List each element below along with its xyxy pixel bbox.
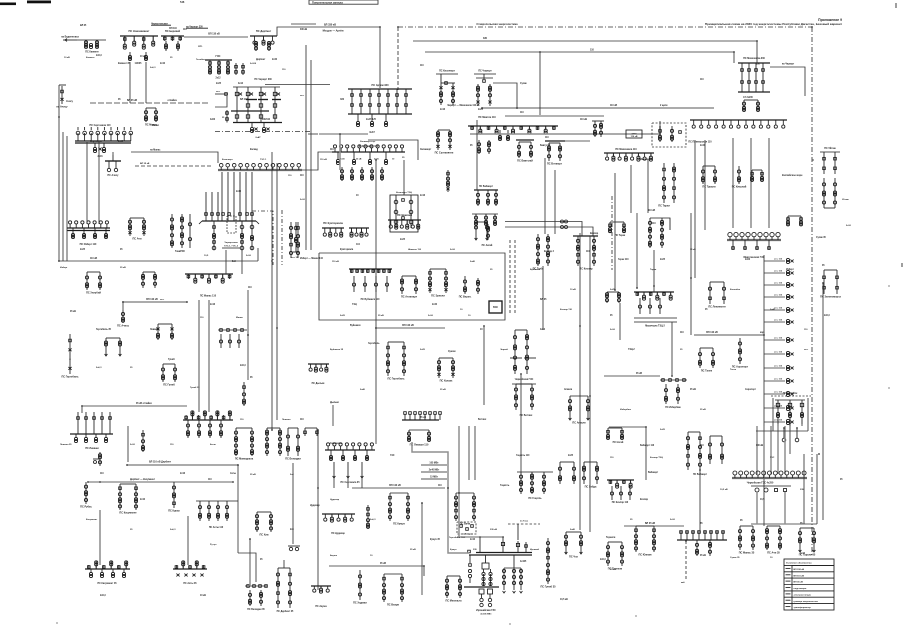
- label M9: [238, 83, 244, 85]
- wire plant box: [609, 427, 817, 524]
- label N66: [130, 529, 133, 531]
- label M11: [272, 58, 278, 61]
- svg-text:110: 110: [170, 444, 174, 446]
- label N64: [370, 555, 373, 557]
- svg-text:ПС Ачи: ПС Ачи: [132, 237, 142, 240]
- label L41: [800, 523, 803, 525]
- label M1: [80, 25, 87, 27]
- svg-text:ПС Каякент: ПС Каякент: [85, 51, 99, 54]
- substation S19: [446, 170, 449, 192]
- label N28: [420, 349, 426, 351]
- wire X33: [619, 303, 621, 340]
- label M76: [368, 342, 380, 345]
- svg-text:Гоцатль 110: Гоцатль 110: [516, 455, 530, 457]
- svg-text:отп. 110: отп. 110: [774, 352, 783, 354]
- svg-text:35: 35: [822, 265, 825, 267]
- plant S97 feeder wire: [457, 534, 504, 538]
- svg-text:330: 330: [340, 99, 345, 101]
- substation S71: [698, 348, 714, 372]
- label M53: [100, 595, 106, 597]
- label N16: [246, 255, 252, 257]
- svg-text:2хАТ: 2хАТ: [255, 136, 261, 139]
- wire X11: [257, 248, 259, 261]
- wire ring 134: [470, 121, 660, 134]
- wire y488: [352, 484, 445, 488]
- plant S97 left feeder: [468, 555, 471, 583]
- svg-text:110: 110: [240, 419, 244, 421]
- svg-text:ПС Мехельта: ПС Мехельта: [446, 599, 463, 602]
- tap G1: [56, 85, 68, 108]
- svg-text:ПС Ботлих: ПС Ботлих: [520, 414, 533, 417]
- substation S93: [366, 505, 369, 529]
- svg-text:2х6,3: 2х6,3: [824, 315, 830, 317]
- svg-text:330: 330: [756, 64, 761, 66]
- wire tie cap A: [505, 220, 582, 236]
- svg-text:35 кВ: 35 кВ: [690, 249, 696, 251]
- svg-text:110 кВ: 110 кВ: [631, 136, 638, 138]
- label N49: [330, 499, 340, 501]
- svg-text:2х6,3: 2х6,3: [370, 519, 376, 521]
- svg-text:35: 35: [170, 57, 173, 59]
- svg-text:Чиркей: Чиркей: [500, 348, 509, 351]
- svg-text:отп.: отп.: [804, 349, 809, 351]
- wire X1: [62, 132, 64, 261]
- svg-text:ТЭЦ-2: ТЭЦ-2: [628, 349, 635, 351]
- label M47: [690, 389, 696, 391]
- svg-text:35: 35: [402, 157, 405, 159]
- junction J38: [645, 426, 647, 428]
- label M15: [440, 109, 446, 111]
- fold mark bar 2: [27, 1, 51, 4]
- svg-text:ПС Уйташ: ПС Уйташ: [824, 147, 835, 150]
- label N7: [282, 69, 286, 71]
- label N70: [450, 249, 456, 251]
- svg-text:ПС Хаджал: ПС Хаджал: [353, 601, 367, 604]
- svg-text:15 МВт: 15 МВт: [430, 477, 439, 479]
- svg-text:ПС Ленинкент: ПС Ленинкент: [708, 305, 726, 308]
- substation S98: [517, 472, 553, 500]
- label M82: [544, 251, 555, 253]
- label M17: [520, 83, 528, 85]
- junction J6: [276, 327, 278, 329]
- wire S10 link: [113, 149, 218, 163]
- svg-text:ПС Новокаякент: ПС Новокаякент: [129, 29, 151, 33]
- label M10: [256, 58, 266, 61]
- wire gray v459: [459, 426, 475, 493]
- label N22: [96, 367, 102, 369]
- svg-text:2х25: 2х25: [216, 83, 222, 85]
- label N31: [360, 388, 366, 391]
- gen unit labels: [421, 463, 447, 479]
- svg-text:10: 10: [468, 315, 471, 317]
- svg-text:каб.: каб.: [681, 581, 686, 584]
- svg-text:2х25: 2х25: [610, 289, 616, 291]
- wire X25: [690, 278, 692, 335]
- label N42: [650, 457, 663, 459]
- label L25: [648, 210, 655, 212]
- label N1: [64, 57, 70, 59]
- svg-text:Каспийск: Каспийск: [730, 288, 741, 291]
- svg-text:10 кВ: 10 кВ: [610, 569, 616, 571]
- label M65: [700, 555, 706, 557]
- substation S16: [516, 140, 590, 165]
- label N38: [660, 429, 666, 431]
- wire v484: [483, 326, 485, 384]
- svg-text:ПС Чирюрт 330: ПС Чирюрт 330: [254, 79, 272, 81]
- feeder column items: [764, 258, 794, 424]
- label N26: [282, 419, 291, 421]
- label M74: [356, 195, 359, 197]
- junction J40: [783, 427, 785, 429]
- svg-text:Тарки: Тарки: [650, 269, 657, 271]
- substation S55: [459, 276, 480, 298]
- svg-text:110: 110: [100, 473, 104, 475]
- label M38: [352, 304, 357, 306]
- svg-text:2х16: 2х16: [428, 315, 434, 317]
- svg-text:ПС Ахты 110: ПС Ахты 110: [209, 526, 224, 529]
- substation S44: [242, 382, 245, 406]
- svg-text:35 кВ: 35 кВ: [700, 555, 706, 557]
- wire X42: [292, 463, 294, 544]
- label N12: [360, 141, 376, 143]
- label L35: [250, 377, 253, 379]
- wire y566: [329, 565, 424, 567]
- svg-text:отп. 110: отп. 110: [774, 259, 783, 261]
- svg-text:Буйнакск: Буйнакск: [350, 324, 361, 327]
- wire X5: [58, 85, 60, 104]
- svg-text:110 кВ: 110 кВ: [648, 210, 655, 212]
- svg-text:ПС Кумух: ПС Кумух: [393, 522, 405, 525]
- label M14: [420, 65, 424, 67]
- svg-text:ПС Ботаюрт: ПС Ботаюрт: [547, 162, 563, 165]
- svg-text:35 кВ: 35 кВ: [380, 563, 386, 565]
- substation S113: [353, 570, 367, 604]
- label M59: [430, 539, 441, 541]
- svg-text:4х63: 4х63: [540, 328, 546, 331]
- wire X27: [756, 58, 758, 63]
- junction J1: [58, 260, 60, 262]
- svg-text:110 кВ: 110 кВ: [90, 258, 97, 260]
- wire X12: [198, 300, 200, 412]
- svg-text:Цудахар: Цудахар: [330, 499, 340, 501]
- svg-text:Хунзах: Хунзах: [448, 351, 456, 353]
- svg-text:ПС Дербент: ПС Дербент: [256, 29, 272, 33]
- junction J26: [423, 565, 425, 567]
- svg-text:Бавтугай: Бавтугай: [540, 144, 551, 147]
- label M67: [800, 553, 806, 555]
- junction J5: [271, 260, 273, 262]
- label N81: [842, 198, 849, 201]
- substation S13: [474, 70, 517, 108]
- substation F1 top bus: [233, 85, 330, 88]
- fold dot b: [509, 623, 510, 624]
- svg-text:110: 110: [330, 149, 334, 151]
- svg-text:330 кВ: 330 кВ: [490, 529, 497, 531]
- label N65: [86, 519, 98, 521]
- svg-text:Кумух: Кумух: [450, 549, 457, 551]
- label N2: [86, 57, 95, 59]
- svg-text:Чирюртская: Чирюртская: [224, 242, 238, 244]
- label N10: [260, 159, 267, 161]
- label M48: [745, 388, 757, 391]
- label M68: [840, 479, 843, 481]
- svg-text:граница энергосистем: граница энергосистем: [794, 601, 819, 603]
- svg-text:10 кВ: 10 кВ: [140, 56, 146, 58]
- wire X37: [784, 492, 786, 524]
- svg-text:ВЛ 330 кВ: ВЛ 330 кВ: [794, 569, 805, 571]
- svg-text:2х63: 2х63: [745, 259, 751, 261]
- svg-text:2х25: 2х25: [400, 239, 406, 241]
- label L12: [680, 332, 684, 334]
- svg-text:ПС Буйнакск 110: ПС Буйнакск 110: [361, 298, 381, 301]
- wire X23: [750, 138, 752, 228]
- svg-text:10,5: 10,5: [760, 499, 765, 501]
- label M60: [470, 539, 476, 541]
- svg-text:ПС Кумторкала: ПС Кумторкала: [323, 221, 343, 225]
- label L28: [300, 419, 304, 421]
- junction J13: [481, 107, 483, 109]
- label N39: [700, 409, 706, 411]
- label N54: [530, 548, 540, 551]
- svg-text:ПС Касумкент: ПС Касумкент: [119, 511, 137, 514]
- svg-text:отп. 110: отп. 110: [774, 392, 783, 394]
- label M44: [705, 309, 708, 311]
- substation S2 Новокаякент 110: [120, 29, 158, 65]
- svg-text:2х6,3: 2х6,3: [100, 595, 106, 597]
- label M3: [118, 63, 131, 65]
- svg-text:Принципиальная схема на 2030 г: Принципиальная схема на 2030 год энергос…: [705, 22, 843, 26]
- svg-text:ПС Гоцатль: ПС Гоцатль: [528, 498, 542, 500]
- label N57: [60, 444, 72, 446]
- svg-text:110: 110: [438, 485, 442, 487]
- label L14: [700, 523, 703, 525]
- svg-text:35: 35: [222, 117, 225, 119]
- wire ring 116: [505, 115, 604, 117]
- plant dashed box: [227, 216, 236, 233]
- label L10: [300, 257, 324, 260]
- svg-text:ВЛ 110 кВ: ВЛ 110 кВ: [706, 331, 718, 334]
- label N24: [190, 386, 200, 389]
- svg-text:330: 330: [473, 549, 477, 551]
- substation S29: [750, 170, 763, 182]
- svg-text:на Манас: на Манас: [150, 149, 161, 151]
- svg-text:2х16: 2х16: [210, 304, 216, 306]
- svg-text:2х16: 2х16: [440, 109, 446, 111]
- svg-text:отп.: отп.: [300, 95, 305, 97]
- label N19: [160, 299, 165, 301]
- plant S97 topleft box: [449, 522, 476, 539]
- svg-text:Леваши 35: Леваши 35: [60, 444, 72, 446]
- substation S45 bus: [70, 434, 113, 450]
- svg-text:330: 330: [483, 37, 488, 40]
- svg-text:110: 110: [356, 244, 360, 246]
- svg-text:Ирганай: Ирганай: [530, 548, 540, 551]
- wire X51: [423, 566, 425, 576]
- label N77: [730, 288, 741, 291]
- svg-text:Кизляр ТЭЦ: Кизляр ТЭЦ: [650, 457, 663, 459]
- svg-text:Дербент: Дербент: [256, 58, 266, 61]
- label N61: [250, 474, 256, 476]
- svg-text:ПС Мамедкала: ПС Мамедкала: [235, 457, 254, 460]
- svg-text:ВЛ 110: ВЛ 110: [240, 99, 248, 101]
- label L15: [350, 324, 361, 327]
- label L13: [636, 373, 642, 375]
- substation S38: [117, 310, 129, 327]
- junction J18: [237, 464, 239, 466]
- label M32: [210, 304, 216, 306]
- svg-text:10 кВ: 10 кВ: [64, 57, 70, 59]
- label N36: [730, 369, 737, 371]
- svg-text:отп. 110: отп. 110: [774, 379, 783, 381]
- svg-text:ПС Бабаюрт: ПС Бабаюрт: [693, 473, 708, 476]
- svg-text:10: 10: [770, 557, 773, 559]
- svg-text:Изберг — Манас 110: Изберг — Манас 110: [300, 257, 324, 260]
- substation F1 mid bus: [246, 99, 281, 101]
- svg-text:ПС Дылым: ПС Дылым: [312, 383, 325, 385]
- wire y406: [82, 406, 187, 413]
- wire gray y465: [127, 461, 238, 553]
- label L29: [330, 402, 339, 404]
- svg-text:ПС Артём 330: ПС Артём 330: [372, 84, 390, 87]
- substation S11 lower feeders: [356, 114, 387, 134]
- substation S12: [436, 70, 458, 105]
- wire X34: [789, 418, 791, 454]
- svg-text:Изберг: Изберг: [60, 266, 68, 269]
- wire gray y302: [123, 298, 187, 310]
- svg-text:ВЛ 330 кВ: ВЛ 330 кВ: [324, 24, 336, 27]
- junction J49: [614, 289, 616, 291]
- label N71: [490, 269, 493, 271]
- svg-text:2х40: 2х40: [360, 388, 366, 391]
- junction J19: [126, 464, 128, 466]
- svg-text:4х63: 4х63: [210, 118, 216, 121]
- label M77: [448, 351, 456, 353]
- svg-text:Пояснительная записка: Пояснительная записка: [312, 0, 343, 4]
- junction J35: [818, 453, 820, 455]
- junction J33: [763, 334, 765, 336]
- svg-text:на Тлох: на Тлох: [520, 521, 529, 523]
- svg-text:Кизилюрт: Кизилюрт: [222, 159, 234, 161]
- svg-text:Каспийское море: Каспийское море: [782, 174, 803, 177]
- svg-text:отп.: отп.: [198, 46, 203, 48]
- label N60: [210, 443, 216, 446]
- svg-text:2х16: 2х16: [610, 329, 616, 331]
- substation S20b: [474, 222, 493, 247]
- svg-text:2х25: 2х25: [80, 249, 86, 251]
- junction J16: [516, 107, 518, 109]
- svg-text:35 кВ: 35 кВ: [378, 315, 384, 317]
- wire gray v248: [247, 290, 249, 380]
- svg-text:ПС Манас 110: ПС Манас 110: [200, 295, 217, 298]
- label M34: [240, 365, 246, 367]
- svg-text:110: 110: [200, 317, 204, 319]
- junction J10: [756, 40, 758, 42]
- label N32: [440, 389, 446, 391]
- svg-text:Гуниб: Гуниб: [168, 358, 175, 361]
- svg-text:Гоцатль: Гоцатль: [500, 485, 510, 487]
- svg-text:ПС Ачису: ПС Ачису: [108, 174, 120, 177]
- substation S101: [564, 532, 582, 558]
- label L7: [330, 149, 334, 151]
- svg-text:ВЛ 110 кВ Дербент: ВЛ 110 кВ Дербент: [149, 461, 172, 464]
- label N78: [770, 308, 776, 311]
- svg-text:ПС Гуниб 35: ПС Гуниб 35: [540, 585, 556, 588]
- substation S75: [93, 452, 102, 466]
- junction J42: [271, 429, 273, 431]
- label N62: [290, 473, 294, 476]
- substation S110: [765, 526, 781, 554]
- svg-text:2х10: 2х10: [670, 519, 676, 521]
- svg-text:Сергокала: Сергокала: [90, 141, 102, 143]
- wire X45: [458, 493, 460, 537]
- svg-text:отп. 110: отп. 110: [774, 271, 783, 273]
- label M79: [568, 455, 574, 457]
- svg-text:ГЭС-1: ГЭС-1: [260, 159, 267, 161]
- substation S82: [196, 501, 238, 529]
- svg-text:Шамхал 110: Шамхал 110: [408, 249, 422, 251]
- svg-text:Ахты: Ахты: [230, 472, 236, 475]
- label M72: [816, 237, 827, 239]
- label M55: [260, 559, 263, 561]
- wire X53: [777, 420, 779, 426]
- svg-text:ВЛ 110 кВ: ВЛ 110 кВ: [794, 575, 805, 577]
- label N8: [300, 95, 305, 97]
- wire v128: [127, 426, 129, 462]
- svg-text:10,5 кВ: 10,5 кВ: [560, 599, 568, 601]
- svg-text:ПС Бавтугай: ПС Бавтугай: [517, 159, 533, 162]
- svg-text:ПС Чох: ПС Чох: [569, 555, 579, 558]
- label N9: [222, 159, 234, 161]
- label L2: [240, 99, 248, 101]
- svg-text:Бабаюрт 110: Бабаюрт 110: [640, 444, 655, 447]
- svg-text:2х4: 2х4: [290, 473, 294, 476]
- svg-text:2х40: 2х40: [432, 303, 438, 306]
- label M29: [300, 175, 304, 177]
- svg-text:ГЭС-1, ГЭС-2: ГЭС-1, ГЭС-2: [224, 246, 239, 248]
- label M50: [140, 499, 146, 501]
- svg-text:Хасавюрт-гор.: Хасавюрт-гор.: [360, 141, 376, 143]
- edge tick top right: [895, 3, 897, 8]
- wire gray v250: [249, 539, 251, 586]
- label M57: [330, 443, 342, 445]
- wire X41: [238, 553, 256, 582]
- svg-text:35 кВ: 35 кВ: [410, 549, 416, 551]
- label M22: [743, 96, 754, 99]
- label N56: [610, 569, 616, 571]
- svg-text:35 кВ: 35 кВ: [700, 409, 706, 411]
- svg-text:Аэропорт: Аэропорт: [745, 388, 757, 391]
- label M26: [262, 119, 271, 121]
- svg-text:110: 110: [610, 457, 614, 459]
- svg-text:ПС Леваши: ПС Леваши: [85, 447, 99, 450]
- label L18: [130, 478, 156, 481]
- substation S41: [61, 334, 79, 378]
- wire v376: [375, 160, 377, 328]
- substation S88: [276, 568, 294, 613]
- plant name labels: [222, 242, 240, 248]
- wire X20: [554, 170, 556, 234]
- svg-text:Касумкент: Касумкент: [86, 519, 98, 521]
- wire y482: [88, 481, 233, 483]
- svg-text:110: 110: [208, 479, 212, 481]
- label N51: [410, 549, 416, 551]
- svg-text:35 кВ: 35 кВ: [250, 474, 256, 476]
- svg-text:Леваши: Леваши: [150, 329, 159, 331]
- label near border: [782, 174, 803, 177]
- substation F1 Чирюрт-330 label: [254, 79, 272, 81]
- svg-text:2х40: 2х40: [570, 528, 576, 531]
- svg-text:Агвали: Агвали: [564, 388, 573, 391]
